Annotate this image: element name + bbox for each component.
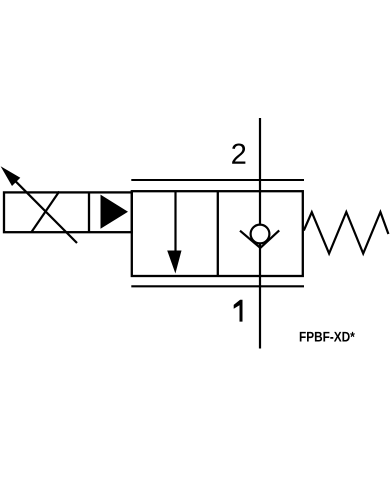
proportional X diagonal [32,192,60,233]
solenoid box [4,192,132,232]
proportional adjustment arrow head [1,166,21,186]
spring [304,212,389,254]
check valve circle [251,225,270,244]
label: port 1 [234,300,243,322]
valve body divider between the two positions [217,191,219,276]
check valve seat [240,230,279,248]
proportional adjustment arrow shaft [8,174,77,243]
solenoid box divider [88,192,90,232]
label: port 2 [232,143,245,163]
wire: port 2/1 vertical line through valve [259,118,261,349]
down arrow head [167,251,181,274]
solenoid triangle (actuator) [101,195,129,229]
wire: top parallel line (infinite positioning) [131,179,304,181]
wire: bottom parallel line (infinite positioning) [131,285,304,287]
label: model code FPBF-XD* [300,332,355,342]
down arrow (open flow path) shaft [174,192,176,255]
valve body envelope [132,191,303,276]
